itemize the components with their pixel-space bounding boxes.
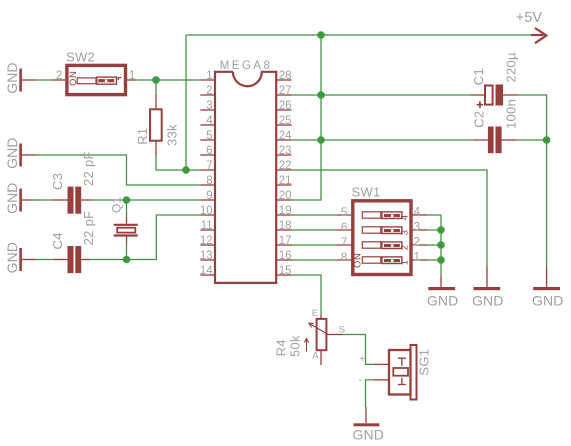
capacitor C1 plus sign bbox=[477, 101, 484, 108]
svg-text:22: 22 bbox=[279, 160, 292, 172]
ground GND D (C4) bbox=[4, 242, 37, 273]
svg-text:+: + bbox=[359, 353, 365, 365]
crystal Q1 bottom pin bbox=[126, 237, 128, 244]
svg-text:18: 18 bbox=[279, 220, 292, 232]
buzzer SG1 piezo disc bar bbox=[411, 345, 417, 400]
switch SW1 left pin numbers bbox=[341, 207, 347, 264]
svg-text:16: 16 bbox=[279, 250, 292, 262]
switch SW1 row1 knob bbox=[382, 212, 402, 219]
svg-text:10: 10 bbox=[200, 205, 213, 217]
svg-text:5: 5 bbox=[206, 130, 212, 142]
svg-text:100n: 100n bbox=[503, 99, 518, 129]
switch SW1 row3 bar bbox=[384, 244, 400, 247]
+5V supply arrow bbox=[531, 28, 546, 43]
capacitor C1 left pin bbox=[470, 94, 485, 96]
buzzer SG1 crystal top plate bbox=[398, 358, 406, 366]
capacitor C4 left pin bbox=[53, 259, 68, 261]
svg-text:SW1: SW1 bbox=[352, 185, 381, 200]
ground GND H (SG1) bbox=[353, 407, 384, 443]
svg-text:SG1: SG1 bbox=[417, 349, 432, 376]
wire top +5V rail horizontal bbox=[186, 34, 531, 36]
svg-text:33k: 33k bbox=[164, 124, 179, 146]
svg-text:R4: R4 bbox=[273, 339, 288, 356]
svg-text:GND: GND bbox=[532, 293, 563, 309]
junction top rail / x321 rail bbox=[318, 32, 325, 39]
switch SW1 right pin numbers bbox=[414, 207, 421, 264]
wire GND B to pin 8 bbox=[36, 155, 200, 185]
wire C2 right to right rail junction bbox=[517, 139, 547, 141]
capacitor C2 left plate bbox=[488, 127, 494, 154]
svg-text:19: 19 bbox=[279, 205, 292, 217]
svg-text:A: A bbox=[312, 350, 319, 361]
svg-text:23: 23 bbox=[279, 145, 292, 157]
switch SW1 row4 knob bbox=[382, 257, 402, 264]
wire Q1 bottom to junction bbox=[126, 244, 128, 260]
wire C3 right to IC pin 9 bbox=[91, 199, 201, 201]
wire SW1 gnd rail vertical bbox=[440, 215, 442, 275]
switch SW2 contact tick bbox=[118, 78, 121, 80]
potentiometer R4 wiper diagonal bbox=[309, 323, 329, 335]
switch SW2 body bbox=[67, 65, 126, 94]
wire IC pin 15 to R4 E bbox=[292, 275, 322, 315]
switch SW1 row2 track bbox=[362, 227, 381, 233]
switch SW2 pin 2 stub bbox=[52, 79, 66, 81]
svg-text:GND: GND bbox=[353, 427, 384, 443]
svg-text:21: 21 bbox=[279, 175, 292, 187]
wire SG1 minus to bottom GND bbox=[366, 380, 375, 407]
svg-text:ON: ON bbox=[68, 71, 79, 86]
svg-text:26: 26 bbox=[279, 100, 292, 112]
buzzer SG1 plus pin stub bbox=[374, 363, 389, 365]
wire C4 right to IC pin 10 bbox=[91, 215, 201, 260]
svg-text:1: 1 bbox=[206, 70, 212, 82]
buzzer SG1 body bbox=[389, 350, 411, 395]
svg-text:22 pF: 22 pF bbox=[81, 211, 96, 246]
U1 left pin stubs 1-14 bbox=[200, 80, 215, 275]
wire SW1 pin 2 to gnd rail bbox=[427, 244, 441, 246]
svg-text:SW2: SW2 bbox=[66, 50, 95, 65]
switch SW1 row4 notch bbox=[391, 259, 394, 262]
resistor R1 bottom pin bbox=[155, 141, 157, 156]
resistor R1 top pin bbox=[155, 95, 157, 109]
svg-text:5: 5 bbox=[341, 207, 347, 219]
junction SW1 pin2 rail bbox=[438, 242, 445, 249]
junction SW1 pin3 rail bbox=[438, 227, 445, 234]
switch SW2 knob bbox=[97, 77, 117, 84]
svg-text:8: 8 bbox=[341, 252, 347, 264]
junction pin24 row bbox=[318, 137, 325, 144]
svg-text:4: 4 bbox=[399, 215, 410, 220]
wire R4 S to SG1 plus bbox=[343, 335, 374, 365]
svg-text:2: 2 bbox=[206, 85, 212, 97]
switch SW1 row3 notch bbox=[391, 244, 394, 247]
crystal Q1 body bbox=[117, 228, 135, 233]
crystal Q1 top pin bbox=[126, 217, 128, 224]
wire GND A to SW2 pin 2 bbox=[36, 79, 51, 81]
switch SW2 track bbox=[77, 78, 96, 84]
potentiometer R4 body bbox=[317, 319, 327, 350]
switch SW2 knob bar bbox=[98, 79, 114, 82]
switch SW1 body bbox=[353, 201, 411, 275]
ground GND F (pin22) bbox=[472, 267, 503, 309]
svg-text:C2: C2 bbox=[472, 111, 487, 128]
svg-text:1: 1 bbox=[399, 260, 410, 265]
capacitor C3 right pin bbox=[81, 199, 90, 201]
switch SW1 row4 track bbox=[362, 257, 381, 263]
wire GND D to C4 bbox=[36, 259, 52, 261]
wire +5V rail vertical x=321 down to pin 20 bbox=[292, 35, 322, 200]
switch SW2 pin 1 stub bbox=[127, 79, 137, 81]
junction R1 bottom / pin7 bbox=[183, 167, 190, 174]
svg-text:25: 25 bbox=[279, 115, 292, 127]
wire pin24 row to C2 bbox=[292, 139, 473, 141]
wire SW2 pin 1 to IC pin 1 bbox=[137, 79, 200, 81]
capacitor C2 left pin bbox=[473, 139, 488, 141]
svg-text:-: - bbox=[359, 374, 363, 386]
svg-text:1: 1 bbox=[414, 252, 420, 264]
wire IC pin 19 to SW1 pin 5 bbox=[292, 214, 337, 216]
crystal Q1 bottom plate bbox=[114, 234, 138, 236]
svg-text:3: 3 bbox=[399, 230, 410, 235]
wire vertical from top rail to pin7 row bbox=[185, 35, 187, 170]
potentiometer R4 wiper stub to S bbox=[329, 334, 343, 336]
potentiometer R4 bottom pin A bbox=[320, 350, 322, 365]
ground GND E (SW1 rail) bbox=[427, 275, 458, 308]
svg-text:3: 3 bbox=[206, 100, 212, 112]
svg-text:6: 6 bbox=[206, 145, 212, 157]
switch SW1 row1 bar bbox=[384, 214, 400, 217]
buzzer SG1 crystal bottom plate bbox=[398, 378, 406, 385]
capacitor C3 right plate bbox=[75, 187, 81, 214]
junction pin27 row bbox=[318, 92, 325, 99]
wire junction to R1 top bbox=[155, 80, 157, 96]
resistor R1 body bbox=[150, 109, 162, 140]
svg-text:2: 2 bbox=[399, 245, 410, 250]
svg-text:+5V: +5V bbox=[516, 10, 543, 26]
ground GND G (right rail) bbox=[532, 267, 563, 309]
svg-text:220µ: 220µ bbox=[503, 52, 518, 83]
op-amp U1 MEGA8 body outline with notch bbox=[215, 72, 276, 283]
capacitor C3 left pin bbox=[53, 199, 68, 201]
wire pin22 row to middle GND bbox=[292, 170, 488, 267]
junction SW1 pin1 rail bbox=[438, 257, 445, 264]
svg-text:R1: R1 bbox=[135, 128, 150, 145]
capacitor C1 right pin bbox=[503, 94, 517, 96]
wire SW1 pin 1 to gnd rail bbox=[427, 259, 441, 261]
svg-text:GND: GND bbox=[4, 137, 20, 168]
switch SW1 right stubs bbox=[411, 215, 427, 260]
svg-text:24: 24 bbox=[279, 130, 292, 142]
potentiometer R4 wiper arrowhead bbox=[309, 323, 314, 327]
wire pin7 row from R1 bottom to IC pin 7 bbox=[156, 156, 200, 170]
svg-text:4: 4 bbox=[414, 207, 421, 219]
wire IC pin 17 to SW1 pin 7 bbox=[292, 244, 337, 246]
potentiometer R4 top pin E bbox=[320, 315, 322, 319]
svg-text:Q1: Q1 bbox=[110, 196, 124, 213]
svg-text:GND: GND bbox=[472, 293, 503, 309]
switch SW1 row1 notch bbox=[391, 214, 394, 217]
wire junction to Q1 top bbox=[126, 200, 128, 217]
wire pin27 row to C1 bbox=[292, 94, 471, 96]
capacitor C4 right plate bbox=[75, 246, 81, 273]
svg-text:22 pF: 22 pF bbox=[81, 151, 96, 186]
switch SW1 row2 notch bbox=[391, 229, 394, 232]
svg-text:GND: GND bbox=[4, 242, 20, 273]
switch SW1 row3 track bbox=[362, 242, 381, 248]
svg-text:8: 8 bbox=[206, 175, 212, 187]
capacitor C2 right plate bbox=[496, 127, 502, 154]
wire SW1 pin 4 to gnd rail bbox=[427, 214, 441, 216]
buzzer SG1 minus pin stub bbox=[374, 379, 389, 381]
svg-text:2: 2 bbox=[414, 237, 420, 249]
svg-text:17: 17 bbox=[279, 235, 292, 247]
capacitor C4 right pin bbox=[81, 259, 90, 261]
switch SW1 row2 bar bbox=[384, 229, 400, 232]
svg-text:7: 7 bbox=[341, 237, 347, 249]
capacitor C1 left plate (hollow) bbox=[485, 86, 493, 105]
capacitor C2 right pin bbox=[502, 139, 517, 141]
wire GND C to C3 bbox=[34, 199, 53, 201]
svg-text:4: 4 bbox=[206, 115, 213, 127]
wire IC pin 16 to SW1 pin 8 bbox=[292, 259, 337, 261]
svg-text:15: 15 bbox=[279, 265, 292, 277]
svg-text:27: 27 bbox=[279, 85, 292, 97]
U1 left pin numbers bbox=[200, 70, 213, 277]
svg-text:13: 13 bbox=[200, 250, 213, 262]
capacitor C4 left plate bbox=[68, 246, 74, 273]
svg-text:S: S bbox=[339, 325, 345, 336]
svg-text:C3: C3 bbox=[50, 173, 65, 190]
svg-text:7: 7 bbox=[206, 160, 212, 172]
ground GND A (SW2) bbox=[4, 62, 37, 93]
svg-text:14: 14 bbox=[200, 265, 213, 277]
svg-text:20: 20 bbox=[279, 190, 292, 202]
potentiometer R4 adjust arrow bbox=[304, 339, 308, 352]
switch SW2 knob notch bbox=[105, 79, 108, 82]
junction C2 right rail bbox=[543, 137, 550, 144]
capacitor C3 left plate bbox=[68, 187, 74, 214]
svg-text:E: E bbox=[312, 308, 318, 319]
ground GND C (C3) bbox=[4, 182, 34, 213]
capacitor C1 right plate (filled) bbox=[496, 85, 504, 106]
svg-text:ON: ON bbox=[352, 253, 363, 268]
switch SW1 row1 track bbox=[362, 212, 381, 218]
svg-text:GND: GND bbox=[427, 293, 458, 309]
switch SW1 row4 bar bbox=[384, 259, 400, 262]
U1 right pin stubs 28-15 bbox=[276, 80, 291, 275]
svg-text:1: 1 bbox=[129, 70, 135, 82]
wire IC pin 18 to SW1 pin 6 bbox=[292, 229, 337, 231]
svg-text:6: 6 bbox=[341, 222, 347, 234]
svg-text:C4: C4 bbox=[50, 232, 65, 249]
ground GND B (pin8) bbox=[4, 137, 37, 168]
svg-text:3: 3 bbox=[414, 222, 420, 234]
buzzer SG1 crystal body bbox=[393, 368, 408, 376]
svg-text:50k: 50k bbox=[288, 335, 303, 357]
junction SW2/R1/pin1 node bbox=[153, 77, 160, 84]
svg-text:MEGA8: MEGA8 bbox=[220, 60, 273, 72]
switch SW1 row3 knob bbox=[382, 242, 402, 249]
svg-text:12: 12 bbox=[200, 235, 213, 247]
switch SW1 row2 knob bbox=[382, 227, 402, 234]
svg-text:C1: C1 bbox=[471, 68, 486, 85]
svg-text:28: 28 bbox=[279, 70, 292, 82]
svg-text:2: 2 bbox=[56, 70, 62, 82]
svg-text:11: 11 bbox=[201, 220, 213, 232]
switch SW1 left stubs bbox=[337, 215, 353, 260]
crystal Q1 top plate bbox=[114, 224, 138, 226]
U1 right pin numbers bbox=[279, 70, 292, 277]
junction C4/Q1/pin10 bbox=[123, 256, 130, 263]
svg-text:9: 9 bbox=[206, 190, 212, 202]
wire SW1 pin 3 to gnd rail bbox=[427, 229, 441, 231]
wire C1 right to right rail bbox=[518, 95, 547, 267]
svg-text:GND: GND bbox=[4, 182, 20, 213]
svg-text:GND: GND bbox=[4, 62, 20, 93]
junction C3/Q1/pin9 bbox=[123, 197, 130, 204]
